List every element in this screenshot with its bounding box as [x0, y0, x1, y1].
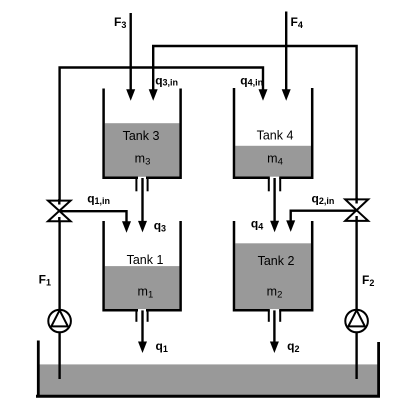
- wire: left pump to reservoir: [58, 332, 60, 379]
- arrow q3,in into tank 3: [149, 89, 158, 101]
- svg-text:Tank 1: Tank 1: [127, 253, 164, 267]
- pump P1: [48, 310, 71, 333]
- wire: tank 3 outlet q3 into tank 1: [141, 178, 143, 224]
- arrow q3 into tank 1: [138, 221, 147, 233]
- svg-text:Tank 2: Tank 2: [258, 254, 295, 268]
- tank 2 water fill m2: [235, 243, 311, 309]
- wire: tank 2 outlet q2 to reservoir: [273, 310, 275, 344]
- tank 4 outlet pipes: [269, 178, 280, 192]
- wire: feed F4 vertical: [285, 12, 287, 94]
- svg-text:F3: F3: [114, 15, 126, 30]
- wire: tank 4 outlet q4 into tank 2: [273, 178, 275, 223]
- tank 4 walls: [234, 88, 312, 178]
- arrow F4 into tank 4: [282, 89, 291, 101]
- svg-text:F1: F1: [39, 272, 51, 287]
- tank 3 water fill m3: [105, 123, 180, 177]
- arrow q1,in into tank 1: [122, 221, 131, 233]
- tank 2 outlet pipes: [269, 310, 280, 322]
- svg-text:q2: q2: [287, 339, 299, 354]
- tank 2 walls: [234, 221, 312, 310]
- valve V2 pipe stubs: [355, 198, 357, 221]
- tank 4 water fill m4: [235, 146, 311, 177]
- svg-text:q1: q1: [156, 339, 168, 354]
- arrow q4 into tank 2: [270, 221, 279, 233]
- tank 3 walls: [104, 89, 181, 178]
- tank 1 water fill m1: [105, 266, 180, 309]
- svg-text:Tank 4: Tank 4: [257, 128, 294, 142]
- svg-text:q3: q3: [154, 219, 166, 234]
- reservoir water fill: [39, 364, 378, 395]
- svg-text:q3,in: q3,in: [155, 73, 178, 87]
- wire: crossover line A (right riser to tank3): [153, 46, 356, 199]
- svg-text:q2,in: q2,in: [312, 191, 335, 206]
- svg-text:q4,in: q4,in: [240, 74, 263, 88]
- wire: q1,in from valve V1 to tank 1: [59, 211, 126, 224]
- tank 1 walls: [104, 221, 181, 310]
- pump P2: [345, 310, 368, 333]
- svg-text:q4: q4: [251, 216, 263, 231]
- valve V2: [345, 199, 368, 221]
- tank 3 outlet pipes: [136, 178, 147, 192]
- arrow F3 into tank 3: [126, 89, 135, 101]
- arrow q1 to reservoir: [138, 342, 147, 354]
- arrow q2,in into tank 2: [286, 220, 295, 232]
- wire: right pump to reservoir: [355, 332, 357, 379]
- reservoir walls: [36, 341, 380, 397]
- valve V1 pipe stubs: [58, 199, 60, 222]
- wire: feed F3 vertical: [129, 13, 131, 93]
- arrow q2 to reservoir: [270, 342, 279, 354]
- wire: left riser valve to pump: [58, 221, 60, 311]
- wire: right riser valve to pump: [355, 221, 357, 311]
- wire: crossover line B (left riser to tank4): [60, 68, 263, 200]
- svg-text:Tank 3: Tank 3: [123, 129, 160, 143]
- wire: tank 1 outlet q1 to reservoir: [141, 310, 143, 344]
- svg-text:q1,in: q1,in: [87, 191, 110, 206]
- tank 1 outlet pipes: [136, 310, 147, 322]
- svg-text:F4: F4: [291, 15, 303, 30]
- svg-text:F2: F2: [362, 273, 374, 288]
- arrow q4,in into tank 4: [259, 89, 268, 101]
- valve V1: [48, 201, 71, 222]
- wire: q2,in from valve V2 to tank 2: [291, 211, 357, 222]
